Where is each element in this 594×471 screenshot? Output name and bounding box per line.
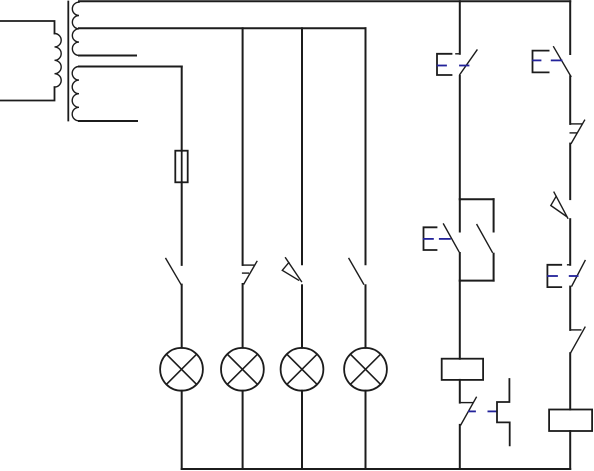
pushbutton S5 arm — [460, 50, 477, 75]
wire: secondary winding 2 top tap to fuse branch — [79, 66, 182, 68]
wire: branch 1 lamp to bottom rail — [181, 391, 183, 469]
pushbutton S5 link dash 1 — [438, 65, 446, 67]
pushbutton S8 actuator bracket — [547, 265, 561, 287]
wire: branch 1 fuse to switch S1 — [181, 182, 183, 265]
wire: branch 2 switch to lamp — [242, 284, 244, 348]
wire: branch 4 vertical from rail 2 to switch S4 — [365, 28, 367, 264]
lamp E1 — [160, 348, 203, 391]
linked contact jog symbol — [497, 379, 510, 445]
transformer T1 secondary winding 2 — [72, 67, 79, 121]
wire: parallel branch vertical upper — [493, 199, 495, 231]
switch S1 arm — [166, 259, 181, 285]
contact K1a arm (right) — [477, 225, 492, 253]
wire: branch 3 lamp to bottom rail — [301, 391, 303, 469]
NC contact seat — [570, 123, 582, 125]
wire: branch 1 through fuse — [181, 151, 183, 183]
wire: column 6 contact to relay coil K2 — [569, 353, 571, 409]
pushbutton S7 link dash 2 — [552, 59, 562, 61]
switch S2 arm — [244, 261, 257, 284]
wire: rejoin tee — [460, 280, 494, 282]
relay coil K1 — [442, 359, 483, 380]
pushbutton S5 link dash 2 — [460, 65, 469, 67]
wire: column 5 contact upper terminal — [459, 199, 461, 231]
wire: tee to parallel contact branch — [460, 198, 494, 200]
wire: branch 3 switch to lamp — [301, 285, 303, 348]
pushbutton S7 arm — [554, 47, 571, 77]
NC contact arm — [571, 120, 584, 143]
transformer T1 primary winding — [55, 34, 62, 88]
NC contact K1b arm — [461, 397, 477, 425]
wire: column 6 pushbutton to NC contact — [569, 76, 571, 124]
lamp E3 — [281, 348, 324, 391]
wire: branch 2 vertical from rail 2 to switch S2 — [242, 28, 244, 265]
switch S3 arm — [286, 258, 302, 282]
transformer T1 core — [67, 2, 69, 121]
wire: branch 1 switch to lamp — [181, 285, 183, 348]
transformer T1 secondary winding 1 (tapped) — [72, 2, 79, 55]
wire: parallel branch vertical lower — [493, 254, 495, 281]
wedge switch arm — [554, 192, 568, 218]
switch S2 auxiliary seat — [243, 272, 249, 274]
wire: column 5 to bottom rail — [459, 425, 461, 469]
pushbutton S7 link dash 1 — [533, 59, 541, 61]
wire: column 6 pushbutton to contact K2a — [569, 287, 571, 330]
pushbutton S6 actuator bracket — [424, 227, 437, 250]
relay coil K2 — [549, 410, 592, 432]
pushbutton S5 top terminal seat — [456, 53, 460, 55]
pushbutton S6 link dash 1 — [424, 238, 433, 240]
switch S4 arm — [349, 259, 364, 285]
NC contact auxiliary seat — [570, 132, 577, 134]
wedge switch actuator — [551, 196, 567, 216]
wire: column 5 down to relay coil K1 — [459, 281, 461, 359]
wire: column 6 wedge switch to pushbutton S8 — [569, 219, 571, 265]
wire: column 6 from top rail to pushbutton S7 — [569, 1, 571, 54]
contact K2a arm — [571, 327, 585, 353]
transformer T1 primary bottom lead wire — [0, 87, 55, 100]
NC contact link dash 2 — [488, 410, 496, 412]
pushbutton S5 actuator bracket — [437, 54, 452, 75]
wire: secondary winding 2 bottom tap (unused) — [79, 120, 137, 122]
pushbutton S8 top terminal seat — [568, 264, 571, 266]
pushbutton S8 link dash 2 — [570, 275, 578, 277]
wire: branch 4 lamp to bottom rail — [365, 391, 367, 469]
wire: secondary winding 1 bottom tap (unused) — [79, 55, 136, 57]
wire: column 5 contact lower terminal — [459, 253, 461, 281]
NC contact link dash 1 — [469, 410, 475, 412]
wire: column 6 NC contact to wedge switch — [569, 144, 571, 200]
switch S3 actuator wedge — [282, 263, 298, 281]
lamp E2 — [221, 348, 264, 391]
lamp E4 — [344, 348, 387, 391]
wire: top supply rail from secondary tap to right column — [79, 0, 570, 2]
contact S6 arm (left) — [444, 224, 459, 252]
NC contact K1b seat — [460, 402, 473, 404]
contact K2a seat — [570, 329, 581, 331]
pushbutton S6 link dash 2 — [440, 238, 450, 240]
pushbutton S7 actuator bracket — [533, 51, 549, 73]
wire: column 5 pushbutton to tee — [459, 76, 461, 199]
switch S2 fixed contact seat — [243, 264, 254, 266]
pushbutton S8 arm — [572, 261, 585, 286]
wire: coil K2 to bottom rail — [569, 431, 571, 469]
wire: branch 1 vertical from tap down to fuse — [181, 67, 183, 151]
wire: branch 4 switch to lamp — [365, 285, 367, 348]
wire: column 5 from top rail to pushbutton S5 — [459, 1, 461, 54]
wire: branch 3 vertical from rail 2 to switch S3 — [301, 28, 303, 264]
wire: branch 2 lamp to bottom rail — [242, 391, 244, 469]
wire: second rail from secondary center tap — [79, 27, 366, 29]
pushbutton S8 link dash 1 — [548, 275, 557, 277]
fuse F1 — [175, 151, 187, 183]
wire: coil K1 to NC contact — [459, 380, 461, 403]
transformer T1 primary top lead wire — [0, 21, 55, 34]
bottom return rail — [182, 468, 571, 470]
